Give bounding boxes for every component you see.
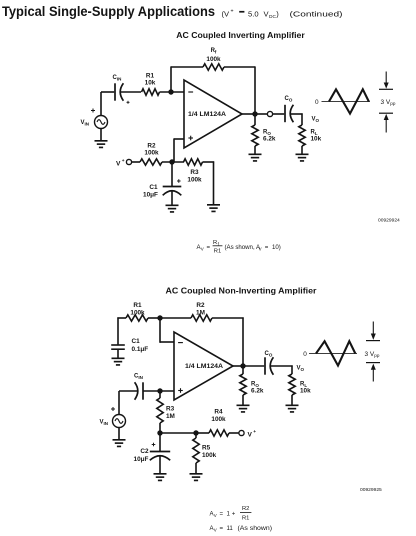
node at inverting input (circuit 1)	[168, 89, 173, 94]
svg-text:R2: R2	[242, 506, 249, 512]
svg-text:0: 0	[315, 99, 319, 106]
svg-text:10): 10)	[272, 244, 281, 251]
svg-text:CIN: CIN	[134, 374, 143, 380]
resistor R1	[142, 89, 160, 95]
svg-text:VO: VO	[312, 117, 320, 123]
svg-text:R5: R5	[202, 445, 211, 452]
op-amp U2 1/4 LM124A (circuit 2)	[174, 332, 233, 400]
wire R2 to node	[162, 161, 184, 163]
down arrow to top bar (circuit 2)	[371, 322, 376, 340]
output node (circuit 2)	[240, 363, 245, 368]
wire op-amp output to node (circuit 1)	[242, 113, 255, 115]
svg-text:(Continued): (Continued)	[290, 10, 344, 19]
wire CO to RL (circuit 2)	[271, 365, 293, 374]
label VIN (circuit 2)	[100, 420, 109, 426]
resistor R1 (circuit 2)	[126, 315, 148, 321]
svg-text:): )	[276, 10, 279, 19]
label RO value (circuit 2)	[251, 382, 264, 395]
svg-text:1/4 LM124A: 1/4 LM124A	[188, 111, 226, 118]
wire CO to RL (circuit 1)	[291, 113, 303, 125]
svg-text:11: 11	[227, 525, 234, 532]
svg-text:10k: 10k	[300, 388, 311, 395]
wire node to R2 (circuit 2)	[160, 317, 191, 319]
svg-text:V: V	[201, 246, 204, 251]
wire R1 to inverting input with node	[160, 91, 185, 93]
resistor RO 6.2k (circuit 1)	[252, 125, 258, 146]
wire non-inverting input (circuit 1)	[174, 138, 184, 162]
wire R3 to ground corner	[203, 161, 215, 204]
svg-text:VIN: VIN	[100, 420, 109, 426]
svg-text:100k: 100k	[144, 150, 159, 157]
svg-text:+: +	[231, 9, 234, 15]
svg-text:(As shown): (As shown)	[238, 525, 273, 532]
gain formula circuit 1	[197, 240, 281, 254]
svg-text:6.2k: 6.2k	[251, 388, 264, 395]
sine wave (circuit 2)	[316, 341, 355, 365]
wire node up to feedback	[171, 66, 203, 92]
svg-text:+: +	[122, 159, 125, 164]
wire R1 to node (circuit 2)	[148, 317, 160, 319]
waveform axis with 0 label (circuit 2)	[303, 351, 357, 358]
wire node down to RO (circuit 2)	[242, 366, 244, 374]
wire terminal to CO (circuit 1)	[272, 113, 284, 115]
svg-text:Typical Single-Supply Applicat: Typical Single-Supply Applications	[2, 4, 215, 20]
svg-text:AC Coupled Inverting Amplifier: AC Coupled Inverting Amplifier	[176, 31, 305, 40]
resistor R4 (circuit 2)	[209, 430, 229, 436]
resistor Rf	[203, 64, 224, 70]
svg-text:V: V	[214, 513, 217, 518]
plus polarity at VIN (circuit 2)	[111, 407, 115, 411]
minus sign at op-amp inverting input (circuit 1)	[188, 91, 193, 92]
ground below R3 (circuit 1)	[207, 204, 220, 212]
wire C1 to ground (circuit 2)	[117, 349, 119, 357]
label 1/4 LM124A (circuit 1)	[188, 111, 226, 118]
header title	[2, 4, 215, 20]
wire node to output terminal (circuit 1)	[255, 113, 268, 115]
gain formula circuit 2 line 1	[210, 506, 252, 522]
wire node to R4 (circuit 2)	[196, 432, 209, 434]
svg-text:(V: (V	[222, 10, 231, 19]
wire node down to C1	[171, 162, 173, 186]
svg-text:CIN: CIN	[113, 75, 122, 81]
svg-text:AC Coupled Non-Inverting Ampli: AC Coupled Non-Inverting Amplifier	[166, 286, 317, 295]
node bias left (circuit 2)	[157, 430, 162, 435]
wire node to CO (circuit 2)	[243, 365, 264, 367]
label R3 value (circuit 1)	[187, 169, 202, 184]
wire V+ to R2	[131, 161, 140, 163]
resistor R3 (circuit 2)	[157, 398, 163, 423]
svg-text:3 Vpp: 3 Vpp	[381, 99, 396, 106]
svg-text:V: V	[214, 527, 217, 532]
label RL value (circuit 1)	[311, 130, 322, 143]
ground below RL (circuit 1)	[296, 154, 309, 162]
label R2 value (circuit 1)	[144, 143, 159, 157]
label 3 Vpp (circuit 2)	[365, 351, 380, 358]
label C1 value	[143, 184, 158, 199]
label CIN (circuit 2)	[134, 374, 143, 380]
label Rf value	[206, 48, 221, 63]
peak-to-peak bars (circuit 1)	[379, 89, 393, 114]
svg-text:VO: VO	[297, 366, 305, 372]
svg-text:C2: C2	[140, 448, 149, 455]
label R2 value (circuit 2)	[196, 302, 205, 317]
resistor RO 6.2k (circuit 2)	[240, 374, 246, 395]
wire node down to RO (circuit 1)	[254, 114, 256, 125]
svg-text:100k: 100k	[187, 177, 202, 184]
svg-text:=: =	[265, 244, 269, 251]
svg-text:R1: R1	[146, 73, 155, 80]
capacitor CIN (circuit 2)	[135, 382, 143, 399]
svg-text:CO: CO	[285, 96, 293, 102]
wire op-amp output to node (circuit 2)	[233, 365, 243, 367]
ground below R5 (circuit 2)	[190, 473, 203, 481]
op-amp U1 1/4 LM124A (circuit 1)	[184, 80, 242, 148]
up arrow to bottom bar (circuit 1)	[384, 114, 389, 133]
label 3 Vpp (circuit 1)	[381, 99, 396, 106]
svg-text:6.2k: 6.2k	[263, 136, 276, 143]
resistor R5 (circuit 2)	[193, 438, 199, 463]
svg-text:V: V	[116, 161, 121, 168]
svg-text:10μF: 10μF	[143, 192, 158, 199]
svg-text:100k: 100k	[130, 310, 145, 317]
wire bias node down to C2 (circuit 2)	[159, 433, 161, 451]
down arrow to top bar (circuit 1)	[384, 72, 389, 89]
sine wave (circuit 1)	[329, 89, 369, 113]
resistor R3 (circuit 1)	[184, 159, 203, 165]
svg-text:00929924: 00929924	[378, 218, 400, 224]
svg-text:R4: R4	[214, 409, 223, 416]
wire R5 to ground (circuit 2)	[195, 463, 197, 473]
ground below VIN (circuit 1)	[95, 129, 108, 149]
wire RO to ground (circuit 2)	[242, 395, 244, 405]
wire C2 to ground (circuit 2)	[159, 456, 161, 473]
svg-text:3 Vpp: 3 Vpp	[365, 351, 380, 358]
svg-text:V: V	[259, 246, 262, 251]
svg-text:=: =	[220, 511, 224, 518]
plus polarity at CIN (circuit 1)	[127, 101, 130, 104]
ground below RO (circuit 1)	[249, 154, 262, 162]
svg-text:5.0: 5.0	[248, 10, 259, 19]
svg-text:1M: 1M	[196, 310, 205, 317]
wire bias node to R5 node (circuit 2)	[160, 432, 196, 434]
voltage source VIN (circuit 1)	[95, 116, 108, 129]
label V+ (circuit 2)	[248, 430, 257, 439]
label R1 value	[145, 73, 156, 87]
svg-text:1: 1	[227, 511, 231, 518]
ground below C1 (circuit 2)	[112, 358, 125, 366]
svg-text:0.1μF: 0.1μF	[132, 346, 149, 353]
node at bias divider (circuit 1)	[169, 159, 174, 164]
label RL value (circuit 2)	[300, 382, 311, 395]
svg-text:R3: R3	[166, 406, 175, 413]
wire CIN to R1	[121, 91, 142, 93]
plus polarity at C2 (circuit 2)	[152, 443, 156, 447]
circuit 1 title	[176, 31, 305, 40]
capacitor CO (circuit 2)	[265, 357, 273, 374]
label VIN (circuit 1)	[81, 120, 90, 126]
wire VIN to CIN (circuit 2)	[119, 391, 138, 415]
label V+ (circuit 1)	[116, 159, 125, 168]
label CIN (circuit 1)	[113, 75, 122, 81]
wire C1 to ground	[171, 191, 173, 205]
plus sign at op-amp non-inverting input (circuit 2)	[178, 388, 183, 393]
waveform axis with 0 label (circuit 1)	[315, 99, 370, 106]
svg-text:100k: 100k	[202, 452, 217, 459]
svg-text:100k: 100k	[206, 56, 221, 63]
label CO (circuit 1)	[285, 96, 293, 102]
wire R3 to bias node (circuit 2)	[159, 423, 161, 433]
terminal at output (circuit 1)	[267, 111, 272, 116]
label R5 value (circuit 2)	[202, 445, 217, 460]
ground below C2 (circuit 2)	[154, 473, 167, 481]
label RO value (circuit 1)	[263, 130, 276, 143]
up arrow to bottom bar (circuit 2)	[371, 364, 376, 382]
svg-text:R3: R3	[190, 169, 199, 176]
svg-text:R2: R2	[147, 143, 156, 150]
resistor RL 10k (circuit 1)	[299, 125, 305, 146]
wire CIN to non-inverting node (circuit 2)	[143, 390, 174, 392]
plus sign at op-amp non-inverting input (circuit 1)	[188, 136, 193, 141]
label C2 value (circuit 2)	[134, 448, 149, 463]
label R1 value (circuit 2)	[130, 302, 145, 317]
svg-text:C1: C1	[132, 338, 141, 345]
label R3 value (circuit 2)	[166, 406, 175, 421]
svg-text:VIN: VIN	[81, 120, 90, 126]
svg-text:(As shown, A: (As shown, A	[225, 244, 261, 251]
ground below VIN (circuit 2)	[113, 428, 126, 448]
svg-text:V: V	[248, 431, 253, 438]
resistor R2 (circuit 1)	[140, 159, 162, 165]
wire node down to inverting input (circuit 2)	[160, 318, 174, 343]
ground below RL (circuit 2)	[286, 405, 299, 413]
svg-text:CO: CO	[265, 351, 273, 357]
svg-text:100k: 100k	[211, 416, 226, 423]
wire R2 to output node (circuit 2)	[212, 317, 244, 366]
header continued	[290, 10, 344, 19]
node at non-inverting input (circuit 2)	[157, 388, 162, 393]
label VO (circuit 1)	[312, 117, 320, 123]
svg-text:R1: R1	[133, 302, 142, 309]
figure number circuit 2	[360, 487, 382, 493]
wire node down to R3 (circuit 2)	[159, 391, 161, 398]
svg-text:00929925: 00929925	[360, 487, 382, 493]
node feedback top (circuit 2)	[157, 315, 162, 320]
svg-text:10k: 10k	[311, 136, 322, 143]
wire RO to ground (circuit 1)	[254, 146, 256, 154]
svg-text:R1: R1	[242, 516, 249, 522]
svg-text:R2: R2	[196, 302, 205, 309]
svg-text:1M: 1M	[166, 413, 175, 420]
svg-text:=: =	[220, 525, 224, 532]
peak-to-peak bars (circuit 2)	[366, 340, 380, 363]
terminal V+ (circuit 2)	[239, 430, 244, 435]
wire RL to ground (circuit 2)	[291, 395, 293, 405]
wire R4 to V+ terminal (circuit 2)	[229, 432, 240, 434]
circuit 2 title	[166, 286, 317, 295]
svg-text:10μF: 10μF	[134, 456, 149, 463]
minus sign at op-amp inverting input (circuit 2)	[178, 342, 183, 343]
svg-text:C1: C1	[149, 184, 158, 191]
plus polarity at C1 (circuit 1)	[177, 179, 181, 183]
label VO (circuit 2)	[297, 366, 305, 372]
resistor R2 (circuit 2)	[191, 315, 212, 321]
svg-text:1/4 LM124A: 1/4 LM124A	[185, 363, 223, 370]
wire R5 node down (circuit 2)	[195, 433, 197, 438]
resistor RL 10k (circuit 2)	[289, 374, 295, 395]
plus polarity at VIN (circuit 1)	[91, 109, 95, 113]
svg-text:+: +	[232, 511, 236, 518]
svg-text:R1: R1	[214, 249, 221, 255]
capacitor C1 (circuit 1)	[163, 187, 182, 196]
capacitor C2 (circuit 2)	[150, 452, 170, 461]
ground below RO (circuit 2)	[237, 405, 250, 413]
svg-text:Rf: Rf	[211, 48, 217, 54]
svg-text:0: 0	[303, 351, 307, 358]
svg-text:+: +	[253, 430, 256, 435]
label CO (circuit 2)	[265, 351, 273, 357]
label 1/4 LM124A (circuit 2)	[185, 363, 223, 370]
output node (circuit 1)	[252, 111, 257, 116]
capacitor CIN (circuit 1)	[115, 83, 123, 100]
svg-text:=: =	[207, 244, 211, 251]
wire VIN top to CIN	[101, 92, 114, 116]
svg-text:R: R	[213, 240, 217, 246]
capacitor CO (circuit 1)	[285, 105, 293, 122]
gain formula circuit 2 line 2	[210, 525, 273, 532]
terminal V+ (circuit 1)	[126, 159, 131, 164]
voltage source VIN (circuit 2)	[113, 415, 126, 428]
figure number circuit 1	[378, 218, 400, 224]
capacitor C1 0.1uF (circuit 2)	[111, 345, 125, 349]
header condition (V+ = 5.0 VDC)	[222, 9, 280, 21]
wire top-left corner to R1 (circuit 2)	[117, 317, 126, 344]
wire Rf to output node	[224, 66, 255, 114]
svg-text:10k: 10k	[145, 80, 156, 87]
node bias right (circuit 2)	[193, 430, 198, 435]
label R4 value (circuit 2)	[211, 409, 226, 424]
wire RL to ground (circuit 1)	[301, 146, 303, 154]
label C1 value (circuit 2)	[132, 338, 149, 353]
ground below C1 (circuit 1)	[166, 205, 179, 213]
